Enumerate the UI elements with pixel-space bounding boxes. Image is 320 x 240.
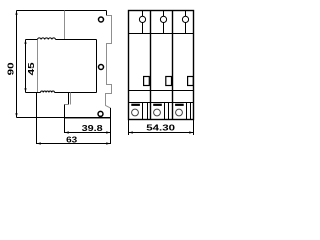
dimension 45 arrow down xyxy=(24,88,26,92)
DIN clip tab outer xyxy=(68,93,70,105)
svg-text:63: 63 xyxy=(66,135,77,144)
dimension 90 line xyxy=(16,11,18,118)
front view top strip line xyxy=(129,33,194,35)
side view back top corner xyxy=(106,11,108,16)
pole 3 terminal box edge xyxy=(190,103,192,120)
pole 1 top screw xyxy=(139,16,145,22)
dimension 45 line xyxy=(25,40,27,93)
dimension 45 arrow up xyxy=(24,40,26,44)
pole 2 top screw xyxy=(160,16,166,22)
side view bottom step line right xyxy=(55,92,97,94)
pole 1 bottom screw xyxy=(132,109,139,116)
front view outer body xyxy=(129,11,194,120)
svg-text:39.8: 39.8 xyxy=(82,124,104,134)
dimension 54.30 extension line left xyxy=(128,120,130,136)
pole divider 1 xyxy=(150,11,152,120)
side view clip bottom edge (gray) xyxy=(65,118,111,120)
side view back profile (gray) xyxy=(106,16,112,119)
terminal screw top xyxy=(99,17,104,22)
coil spring lower xyxy=(41,91,55,93)
front view terminal strip line xyxy=(129,102,194,104)
dimension 63 arrow left xyxy=(37,142,41,144)
svg-text:54.30: 54.30 xyxy=(146,124,175,133)
dimension 90 arrow down xyxy=(15,113,17,117)
dimension 63 extension line left xyxy=(36,93,38,145)
dimension 39.8 arrow left xyxy=(65,131,69,133)
DIN clip bottom step (gray) xyxy=(65,104,69,106)
pole 3 bottom screw xyxy=(176,109,183,116)
pole 1 terminal box edge xyxy=(147,103,149,120)
dimension 63 arrow right xyxy=(106,142,110,144)
pole 2 top center line xyxy=(163,11,165,34)
pole 1 window xyxy=(144,77,150,86)
front view bottom strip line xyxy=(129,90,194,92)
DIN clip tab inner (gray) xyxy=(70,93,72,105)
terminal screw middle xyxy=(99,65,104,70)
DIN clip front edge xyxy=(64,105,66,118)
pole 3 top center line xyxy=(185,11,187,34)
pole 3 clamp bar xyxy=(175,104,184,106)
side view front face top (gray) xyxy=(64,11,66,40)
side view bottom step line left xyxy=(26,92,41,94)
pole 2 clamp bar xyxy=(153,104,162,106)
pole 3 bottom center line xyxy=(186,103,188,120)
dimension 54.30 extension line right xyxy=(193,120,195,136)
side view step line right part xyxy=(56,39,97,41)
dimension 39.8 extension line left (clip front continued) xyxy=(64,118,66,134)
side view top edge with extension line xyxy=(17,10,107,12)
coil spring upper xyxy=(38,38,56,40)
pole 2 terminal box edge xyxy=(168,103,170,120)
svg-text:45: 45 xyxy=(27,62,36,75)
pole 2 bottom screw xyxy=(154,109,161,116)
pole 2 window xyxy=(166,77,172,86)
pole 1 top center line xyxy=(142,11,144,34)
pole 1 clamp bar xyxy=(131,104,140,106)
side view lower front face (gray) xyxy=(37,40,39,93)
svg-text:90: 90 xyxy=(7,62,16,75)
terminal screw bottom xyxy=(98,111,103,116)
dimension 54.30 arrow right xyxy=(189,131,193,133)
pole divider 2 xyxy=(172,11,174,120)
dimension 39.8 line xyxy=(65,132,111,134)
pole 2 bottom center line xyxy=(164,103,166,120)
pole 3 window xyxy=(188,77,194,86)
dimension 39.8/63 extension line right xyxy=(110,108,112,144)
dimension 90 arrow up xyxy=(15,11,17,15)
dimension 54.30 line xyxy=(129,132,194,134)
pole 3 top screw xyxy=(182,16,188,22)
dimension 54.30 arrow left xyxy=(129,131,133,133)
side view inner back edge xyxy=(96,40,98,93)
dimension 63 line xyxy=(37,143,111,145)
side view bottom edge with extension line xyxy=(17,117,111,119)
pole 1 bottom center line xyxy=(142,103,144,120)
side view step line y=39.5 with extension tick xyxy=(26,39,38,41)
dimension 39.8 arrow right xyxy=(106,131,110,133)
